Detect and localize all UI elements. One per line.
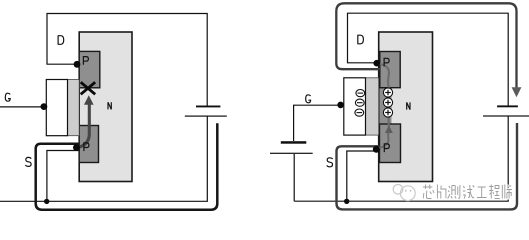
gate oxide left <box>68 80 80 136</box>
battery B3 plate positive (long thin) <box>483 115 529 116</box>
hole circles in channel (plus) <box>383 88 392 117</box>
wire: gate lead right <box>294 105 338 141</box>
label P top-left <box>83 57 88 65</box>
label D right <box>357 35 363 44</box>
wire: top drain loop (thin) left <box>47 14 207 107</box>
electron circles in gate (minus) <box>355 90 365 117</box>
battery B1 plate positive (long thin) <box>185 116 227 117</box>
wire: thick source loop left <box>36 123 218 209</box>
label S left <box>25 157 31 166</box>
battery B1 plate negative (short thick) <box>196 106 220 108</box>
node: gate contact dot left <box>41 103 48 110</box>
程 <box>489 185 500 199</box>
片 <box>437 185 445 199</box>
watermark halo <box>423 185 500 199</box>
wire: source contact box right <box>347 151 379 201</box>
P region bottom-left P2 <box>79 126 98 163</box>
label D left <box>58 36 64 45</box>
gate electrode right <box>344 78 366 135</box>
node: gate contact dot right <box>337 102 344 109</box>
battery B2 gate plate positive (long thin) <box>270 153 313 154</box>
node: bottom junction dot right <box>344 199 349 204</box>
试 <box>463 185 474 199</box>
battery B2 gate plate negative (short thick) <box>281 141 307 144</box>
node: drain contact dot right <box>373 60 380 67</box>
片 <box>437 185 445 199</box>
wire: source contact box left <box>47 151 79 202</box>
label G left <box>5 93 10 101</box>
工 <box>477 187 487 198</box>
测 <box>448 185 460 199</box>
P region top-right P3 <box>380 52 400 88</box>
watermark text 芯片测试工程师 <box>423 185 500 199</box>
gate oxide right <box>366 78 379 135</box>
arrow: blocked channel current left <box>78 95 94 147</box>
label N right <box>407 102 410 109</box>
wire: thick drain loop with arrow right <box>336 3 521 97</box>
battery B3 plate negative (short thick) <box>497 105 518 107</box>
wire: thick source loop right <box>337 123 518 209</box>
P region bottom-right P4 <box>380 124 401 163</box>
label P bottom-left <box>84 143 89 151</box>
label P bottom-right <box>384 144 389 152</box>
node: source contact dot right <box>373 146 380 153</box>
label S right <box>327 158 333 167</box>
试 <box>463 185 474 199</box>
N region (substrate) left <box>79 32 132 182</box>
wire: gate lead left <box>0 106 42 108</box>
工 <box>477 187 487 198</box>
wire: gate battery to bottom right <box>293 154 295 201</box>
wire: bottom return (thin) left <box>0 116 207 201</box>
N region right <box>379 32 433 182</box>
测 <box>448 185 460 199</box>
induced P channel strip <box>380 87 392 125</box>
芯 <box>423 185 434 199</box>
label N left <box>108 102 111 109</box>
wire: hole current wavy path right <box>377 64 393 149</box>
watermark logo <box>393 185 415 201</box>
gate electrode left <box>46 80 67 136</box>
node: source contact dot left <box>73 144 80 151</box>
watermark char 师 <box>502 185 512 199</box>
label G right <box>306 95 311 103</box>
wire: bottom return (thin) right <box>294 116 508 201</box>
P region top-left P1 <box>79 51 100 87</box>
node: bottom junction dot left <box>44 199 49 204</box>
X mark (no channel) <box>81 82 96 94</box>
wire: top drain loop (thin) right <box>348 13 509 106</box>
程 <box>489 185 500 199</box>
芯 <box>423 185 434 199</box>
label P top-right <box>384 58 389 66</box>
node: drain contact dot left <box>74 61 81 68</box>
